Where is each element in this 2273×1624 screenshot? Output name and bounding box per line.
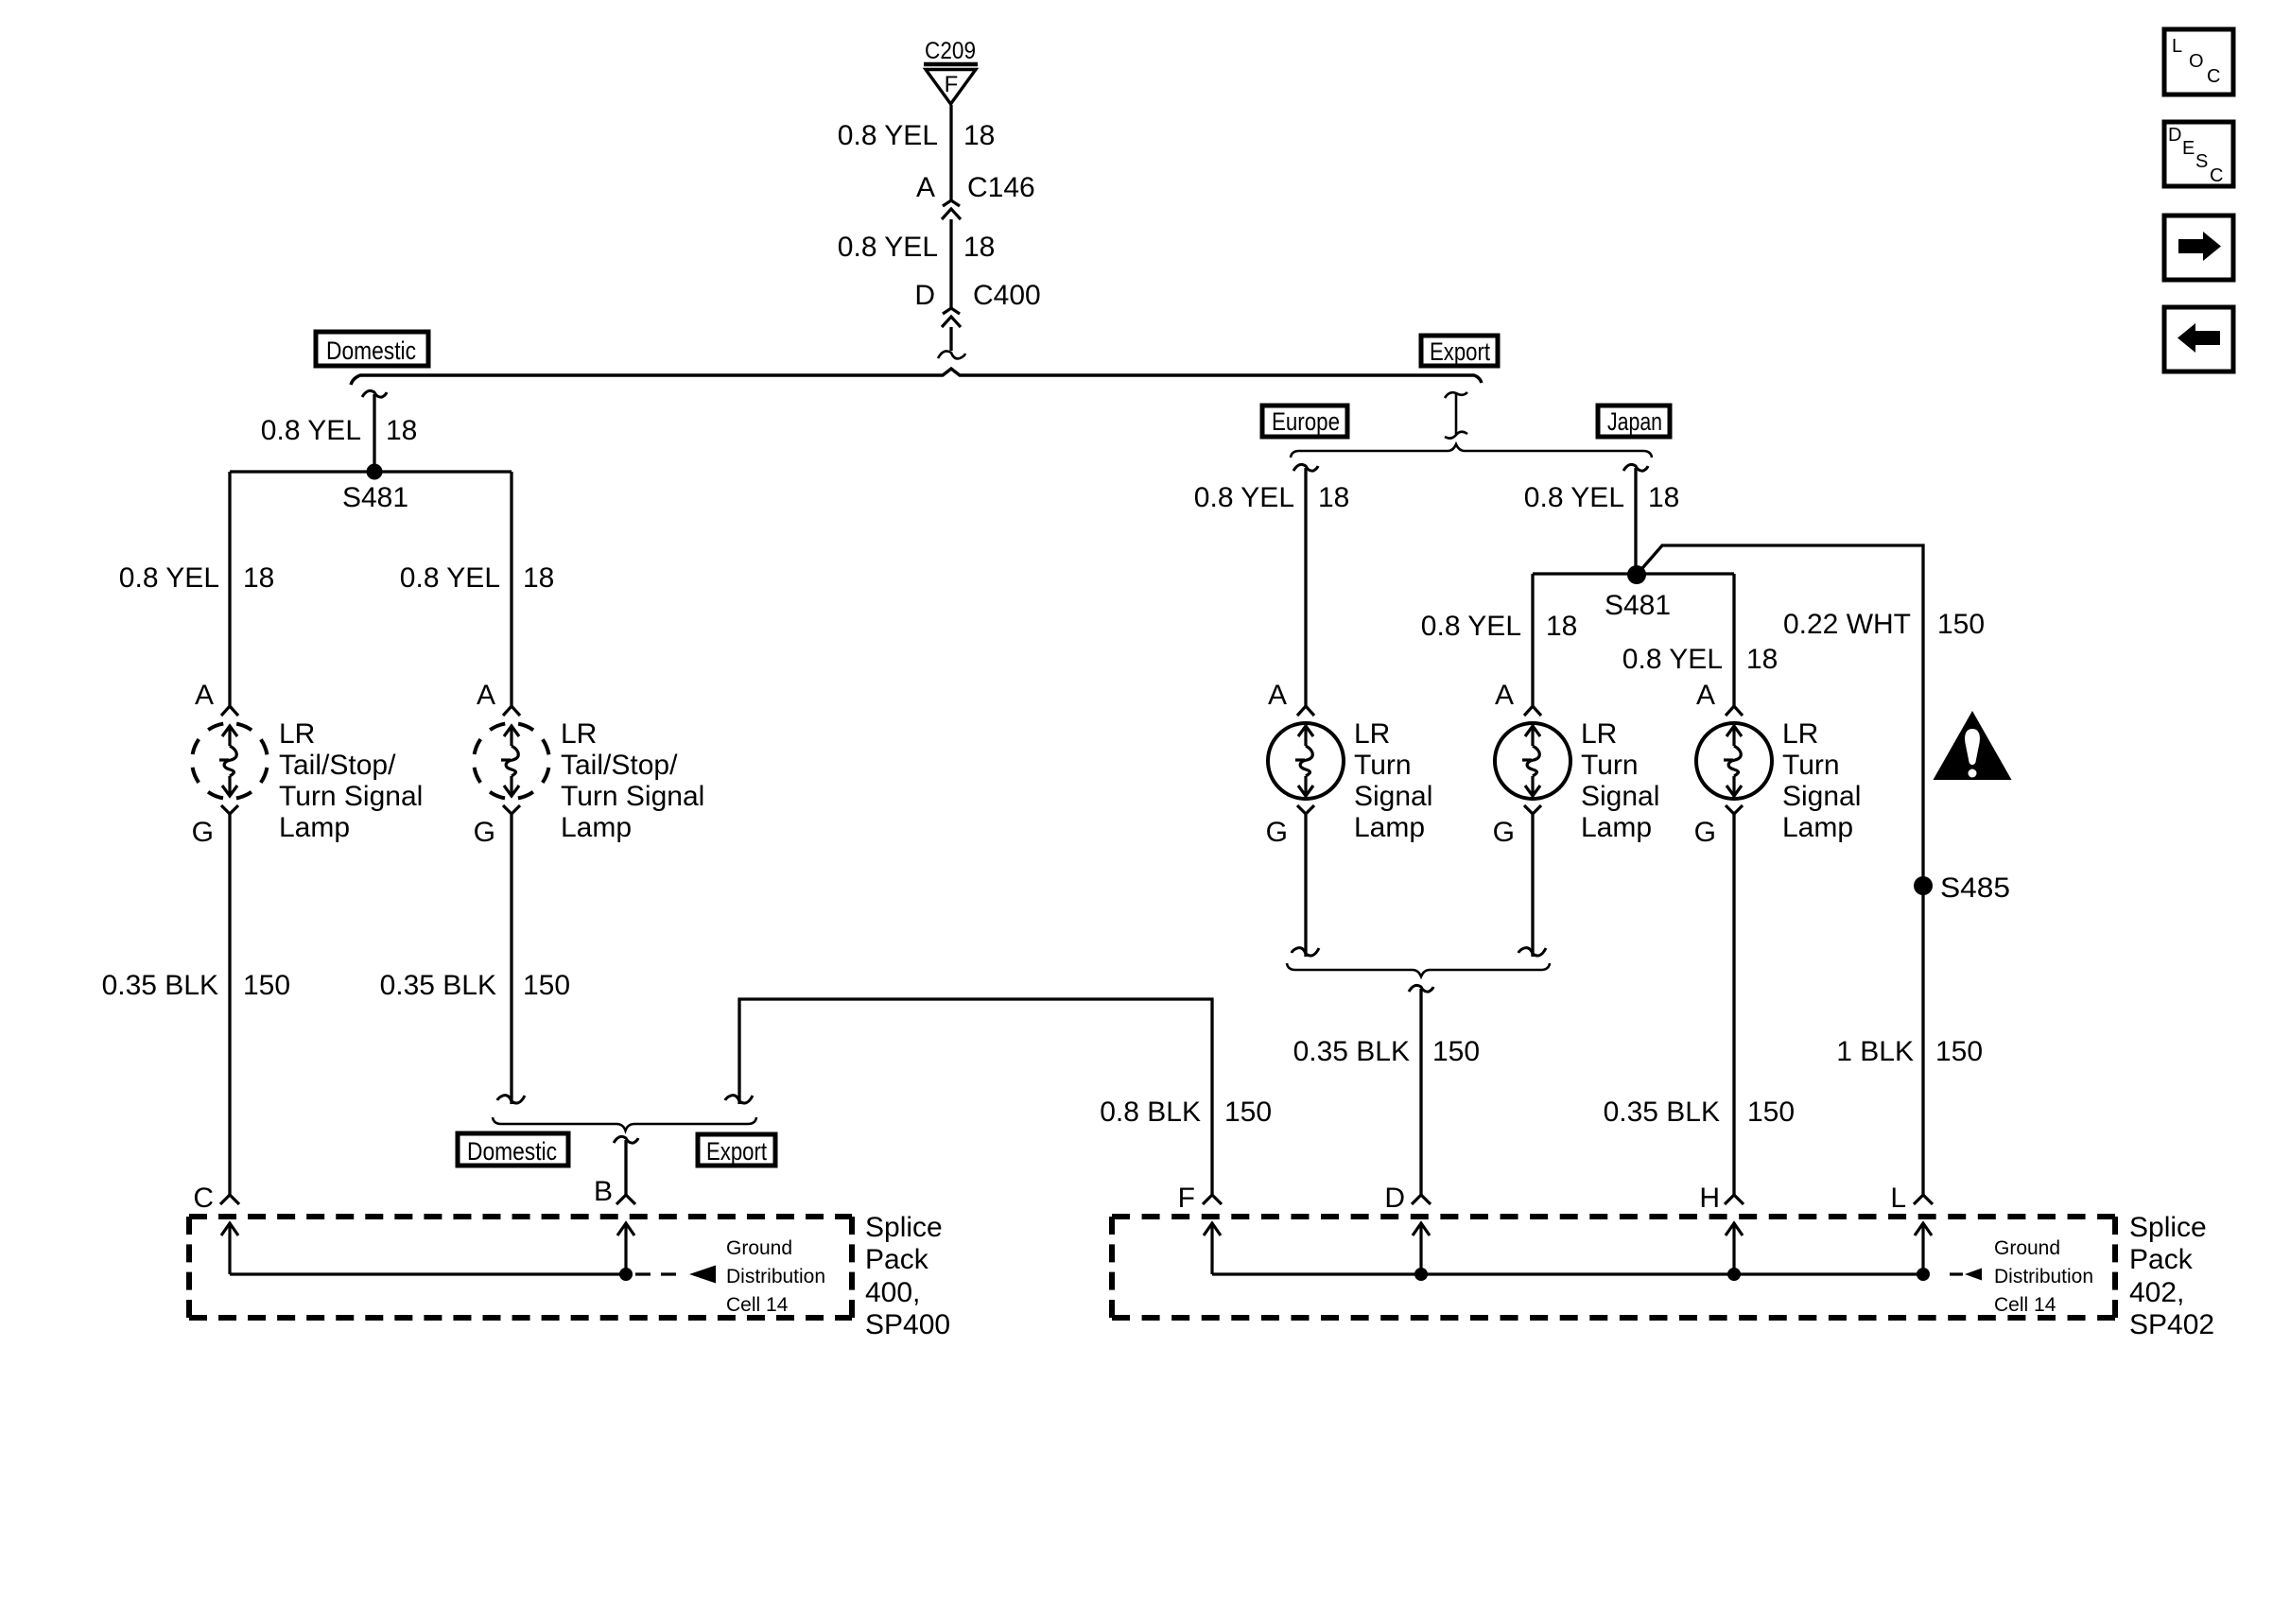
wire 0.8 YEL from C146 to C400 [949,219,952,309]
wire 0.35 BLK to pin D [1419,989,1422,1195]
svg-text:0.22 WHT: 0.22 WHT [1783,609,1911,640]
svg-text:C: C [193,1183,214,1214]
Ground Distribution arrow (right splice pack) [1965,1269,1982,1281]
junction dot at H [1727,1268,1741,1281]
bus wire Domestic/Export [351,369,1482,385]
wire label 0.35 BLK 150 [102,970,291,1001]
wire break hook above bus [938,351,965,358]
wire label 0.8 YEL 18 [119,562,275,594]
svg-text:A: A [195,680,214,711]
pin L chevron [1914,1195,1933,1204]
svg-text:0.8 YEL: 0.8 YEL [119,562,219,594]
brace Europe/middle ground join [1287,963,1550,976]
wire label 0.8 YEL 18 [400,562,555,594]
svg-text:Domestic: Domestic [326,337,416,365]
dashed link to Ground Distribution [635,1272,686,1275]
svg-text:0.8 BLK: 0.8 BLK [1100,1097,1201,1128]
wire hook at top of B wire [614,1136,638,1143]
svg-text:0.35 BLK: 0.35 BLK [380,970,496,1001]
svg-text:150: 150 [1224,1097,1272,1128]
svg-text:LR: LR [279,718,315,750]
svg-text:A: A [916,172,935,203]
lamp E2: LR Tail/Stop/Turn Signal Lamp (right) [468,680,705,848]
svg-text:Lamp: Lamp [1581,812,1652,843]
svg-text:A: A [1268,680,1287,711]
svg-text:Turn: Turn [1581,750,1639,781]
wire 0.8 YEL Europe branch [1304,468,1307,706]
wire end hook (middle ground) [1518,948,1546,956]
svg-text:18: 18 [963,232,995,263]
wire label 0.35 BLK 150 [380,970,571,1001]
svg-text:E: E [2182,138,2195,159]
wire end hook (Export ground) [725,1096,753,1103]
wire end hook (Domestic ground) [497,1096,525,1103]
svg-text:Ground: Ground [726,1237,792,1259]
svg-text:Turn Signal: Turn Signal [561,781,704,812]
Ground Distribution Cell 14 note (left) [726,1237,825,1316]
svg-text:0.8 YEL: 0.8 YEL [838,120,938,151]
svg-text:LR: LR [1354,718,1390,750]
splice S481 (right) [1533,565,1734,621]
svg-text:150: 150 [1935,1036,1983,1067]
in-line connector C146 pin A [916,172,1035,219]
svg-text:18: 18 [1746,644,1778,675]
svg-text:Tail/Stop/: Tail/Stop/ [561,750,678,781]
wire B to splice pack 400 [624,1140,627,1195]
svg-text:0.8 YEL: 0.8 YEL [1421,611,1521,642]
brace Europe/Japan options [1291,444,1652,458]
svg-text:0.8 YEL: 0.8 YEL [1194,482,1294,513]
pin H internal arrow [1726,1223,1743,1274]
svg-text:Turn: Turn [1782,750,1840,781]
wire 0.35 BLK lamp1 G to splice pack C [228,814,231,1195]
svg-text:Distribution: Distribution [1994,1266,2093,1287]
wire 0.22 WHT from S481 to S485 [1637,545,1923,886]
wire 1 BLK from S485 to pin L [1921,886,1924,1195]
svg-text:Cell 14: Cell 14 [1994,1294,2056,1316]
Export option label box [1421,336,1498,366]
wire 0.8 YEL bus tap to S481 [373,394,375,472]
wire label 0.8 YEL 18 [838,120,996,151]
svg-text:Turn Signal: Turn Signal [279,781,423,812]
lamp E1: LR Tail/Stop/Turn Signal Lamp (left) [186,680,424,848]
svg-text:Signal: Signal [1354,781,1432,812]
svg-text:150: 150 [1937,609,1985,640]
wire from C400 to bus [949,327,952,351]
junction dot at B [619,1268,633,1281]
svg-text:0.8 YEL: 0.8 YEL [838,232,938,263]
svg-text:18: 18 [386,415,417,446]
options bracket symbol below Export [1445,392,1467,439]
wire tap hook below bus (Domestic) [362,390,387,397]
pin B chevron [616,1195,635,1204]
connector C209 triangle symbol [924,64,978,104]
svg-text:S485: S485 [1940,872,2010,904]
svg-text:C: C [2210,165,2223,186]
svg-text:A: A [477,680,495,711]
wire 0.8 YEL to left lamp 2 [510,472,512,706]
svg-text:SP402: SP402 [2129,1309,2214,1340]
lamp E4: LR Turn Signal Lamp (middle) [1493,680,1660,848]
wire 0.35 BLK Japan lamp G to pin H [1732,814,1735,1195]
lamp E3: LR Turn Signal Lamp (Europe) [1266,680,1433,848]
wire 0.8 YEL to left lamp 1 [228,472,231,706]
lamp E5: LR Turn Signal Lamp (Japan) [1694,680,1862,848]
wire 0.35 BLK lamp2 G down [510,814,512,1104]
Europe option label box [1262,406,1347,437]
svg-text:Japan: Japan [1607,407,1662,436]
nav box LOC [2164,29,2233,95]
svg-text:G: G [1694,817,1716,848]
Japan option label box [1598,406,1670,437]
svg-text:Pack: Pack [2129,1244,2194,1275]
svg-text:D: D [914,280,935,311]
svg-text:S: S [2195,151,2208,172]
svg-text:SP400: SP400 [865,1309,950,1340]
wire label 0.8 YEL 18 [1194,482,1350,513]
svg-text:G: G [192,817,214,848]
pin C internal arrow [221,1223,238,1274]
pin C chevron [220,1195,239,1204]
svg-text:Lamp: Lamp [279,812,350,843]
dashed link to Ground Distribution (right) [1950,1272,1963,1275]
svg-text:F: F [945,72,959,97]
pin H chevron [1725,1195,1744,1204]
svg-text:Pack: Pack [865,1244,929,1275]
wire label 0.8 YEL 18 [838,232,996,263]
svg-text:Europe: Europe [1272,407,1340,436]
svg-text:Export: Export [706,1137,767,1166]
svg-text:Tail/Stop/: Tail/Stop/ [279,750,396,781]
svg-text:Signal: Signal [1581,781,1659,812]
wire 0.35 BLK middle lamp G down [1531,814,1534,957]
wire label 0.22 WHT 150 [1783,609,1985,640]
in-line connector C400 pin D [914,280,1040,327]
pin B internal arrow [617,1223,634,1274]
Domestic option label box (bottom) [458,1133,568,1166]
svg-text:Export: Export [1430,337,1490,366]
svg-text:150: 150 [1747,1097,1795,1128]
splice pack 400 dashed box [189,1217,852,1318]
svg-text:0.35 BLK: 0.35 BLK [102,970,218,1001]
svg-text:Turn: Turn [1354,750,1412,781]
junction dot at L [1917,1268,1930,1281]
svg-text:0.35 BLK: 0.35 BLK [1604,1097,1720,1128]
pin D internal arrow [1413,1223,1430,1274]
svg-text:D: D [1384,1183,1405,1214]
wire label 1 BLK 150 [1836,1036,1983,1067]
nav box left arrow [2164,307,2233,371]
svg-text:Distribution: Distribution [726,1266,825,1287]
svg-text:Domestic: Domestic [467,1137,557,1166]
Ground Distribution arrow (left splice pack) [689,1266,716,1284]
svg-text:0.35 BLK: 0.35 BLK [1293,1036,1410,1067]
svg-text:18: 18 [1318,482,1349,513]
svg-text:Signal: Signal [1782,781,1861,812]
wire label 0.8 YEL 18 [1622,644,1778,675]
wire 0.8 YEL to Japan lamp [1732,574,1735,706]
svg-text:F: F [1178,1183,1195,1214]
svg-text:Lamp: Lamp [561,812,632,843]
svg-text:Lamp: Lamp [1782,812,1853,843]
wire end hook (Europe ground) [1292,948,1319,956]
wire 0.8 YEL to middle lamp [1531,574,1534,706]
wire hook at top of D wire [1409,985,1433,992]
svg-text:G: G [474,817,495,848]
svg-text:Ground: Ground [1994,1237,2060,1259]
svg-text:C400: C400 [973,280,1041,311]
svg-text:LR: LR [1581,718,1617,750]
svg-text:0.8 YEL: 0.8 YEL [261,415,361,446]
svg-text:Cell 14: Cell 14 [726,1294,789,1316]
wire label 0.8 YEL 18 [261,415,418,446]
wire 0.8 YEL Japan branch [1634,468,1637,575]
splice pack 402 dashed box [1112,1217,2115,1318]
svg-text:C: C [2207,66,2220,87]
svg-text:Splice: Splice [2129,1212,2207,1243]
svg-text:LR: LR [1782,718,1818,750]
svg-text:1 BLK: 1 BLK [1836,1036,1914,1067]
svg-text:150: 150 [243,970,290,1001]
svg-text:400,: 400, [865,1277,920,1308]
svg-text:B: B [594,1176,613,1207]
wire 0.35 BLK Europe lamp G down [1304,814,1307,957]
svg-text:L: L [1890,1183,1906,1214]
svg-text:A: A [1495,680,1514,711]
svg-text:18: 18 [1648,482,1679,513]
svg-text:Splice: Splice [865,1212,943,1243]
Domestic option label box [316,332,428,366]
Splice Pack 402 label [2129,1212,2214,1340]
wire label 0.8 YEL 18 [1524,482,1680,513]
Splice Pack 400 label [865,1212,950,1340]
svg-text:0.8 YEL: 0.8 YEL [1622,644,1723,675]
svg-text:0.8 YEL: 0.8 YEL [1524,482,1624,513]
nav box right arrow [2164,216,2233,280]
svg-text:0.8 YEL: 0.8 YEL [400,562,500,594]
pin F internal arrow [1204,1223,1221,1274]
wire hook at top of Japan wire [1623,464,1648,471]
wire label 0.8 YEL 18 [1421,611,1578,642]
svg-text:C209: C209 [925,38,976,64]
wire label 0.8 BLK 150 (F wire) [1100,1097,1272,1128]
wire hook at top of Europe wire [1293,464,1318,471]
pin L internal arrow [1915,1223,1932,1274]
ground wire inside splice pack 400 [230,1272,626,1275]
wire label 0.35 BLK 150 [1293,1036,1481,1067]
svg-text:LR: LR [561,718,597,750]
junction dot at D [1414,1268,1428,1281]
Export option label box (bottom) [698,1134,775,1166]
svg-text:C146: C146 [967,172,1035,203]
svg-text:O: O [2189,51,2204,72]
wire Export-side ground: down from bend [739,999,1212,1195]
ground wire inside splice pack 402 [1212,1272,1923,1275]
svg-text:S481: S481 [1605,590,1671,621]
svg-text:150: 150 [1432,1036,1480,1067]
svg-text:402,: 402, [2129,1277,2184,1308]
svg-text:18: 18 [243,562,274,594]
svg-text:18: 18 [1546,611,1577,642]
splice S485 [1914,872,2010,904]
pin D chevron [1412,1195,1431,1204]
warning triangle note [1934,711,2012,780]
splice S481 (left) [230,464,512,514]
wire label 0.35 BLK 150 [1604,1097,1796,1128]
svg-text:Lamp: Lamp [1354,812,1425,843]
Ground Distribution Cell 14 note (right) [1994,1237,2093,1316]
svg-text:150: 150 [523,970,570,1001]
svg-text:H: H [1699,1183,1720,1214]
nav box DESC [2164,122,2233,186]
svg-text:A: A [1696,680,1715,711]
wire 0.8 YEL from C209 to C146 [949,105,952,201]
svg-text:S481: S481 [342,482,408,513]
svg-text:18: 18 [523,562,554,594]
svg-text:D: D [2168,125,2181,146]
svg-text:L: L [2172,36,2182,57]
svg-text:18: 18 [963,120,995,151]
brace Domestic/Export ground options [493,1117,756,1131]
svg-text:G: G [1493,817,1515,848]
svg-text:G: G [1266,817,1288,848]
pin F chevron [1203,1195,1222,1204]
